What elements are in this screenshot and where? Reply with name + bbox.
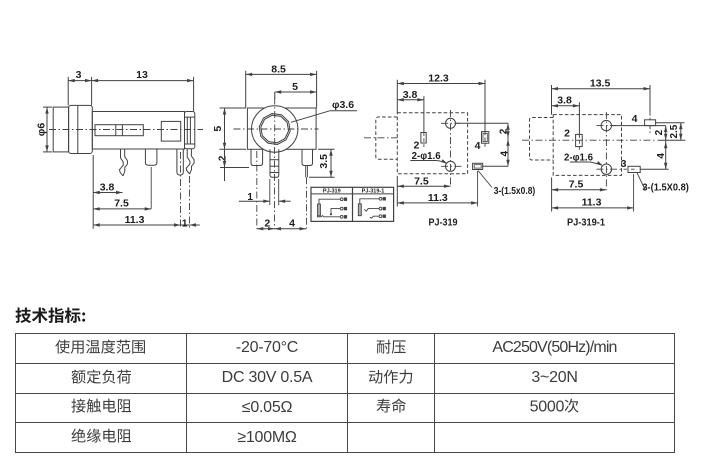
view3 dim 2 right <box>499 123 510 166</box>
view3 dim 12.3 <box>397 73 485 132</box>
view1 dim phi6 <box>35 107 52 152</box>
view4 holes centerline vertical <box>605 112 607 190</box>
view1 dim 1 <box>181 218 200 229</box>
view2 dim 2 bottom <box>257 217 275 230</box>
view1 body <box>92 112 184 150</box>
view4 pad pin4 <box>645 120 656 126</box>
view3 barrel dashed <box>376 117 398 159</box>
view3 hole bottom <box>446 161 456 171</box>
view2 label phi3.6 <box>291 99 357 122</box>
view1 pin spring left <box>123 149 127 176</box>
svg-text:4: 4 <box>499 150 510 156</box>
svg-text:3.8: 3.8 <box>403 89 418 101</box>
svg-text:3-(1.5x0.8): 3-(1.5x0.8) <box>494 186 536 197</box>
view2 pin center <box>270 149 279 177</box>
view3 pad pin4 <box>482 132 489 144</box>
svg-text:2.5: 2.5 <box>669 124 680 138</box>
view3 dim 7.5 <box>397 175 450 206</box>
schematic PJ-319-1 circuit <box>358 197 386 218</box>
schematic PJ-319 circuit <box>318 198 348 219</box>
svg-text:4: 4 <box>632 113 638 125</box>
view4 body dashed <box>553 115 621 176</box>
view1 dim 3.8 <box>93 155 122 229</box>
svg-text:7.5: 7.5 <box>414 175 429 187</box>
view4 label 3-(1.5X0.8) <box>637 173 689 194</box>
view4 dim 11.3 <box>552 174 634 212</box>
view2 dim 4 bottom <box>275 217 307 230</box>
view3 label 3-(1.5x0.8) <box>478 171 535 198</box>
view2 body <box>247 108 316 149</box>
view3 pad pin3 <box>473 163 483 169</box>
view4 centerline horizontal <box>522 139 657 141</box>
view1 inner bar <box>95 125 143 136</box>
view1 pin middle <box>145 149 157 165</box>
svg-text:2: 2 <box>413 139 419 151</box>
svg-text:13.5: 13.5 <box>590 77 611 89</box>
view1 flange <box>69 105 93 153</box>
view2 inner nut ring <box>259 114 290 145</box>
view1 inner box <box>161 121 180 141</box>
view3 centerline left <box>364 137 397 139</box>
svg-text:11.3: 11.3 <box>428 192 448 204</box>
view4 dim 4 right <box>656 140 668 169</box>
svg-text:3-(1.5X0.8): 3-(1.5X0.8) <box>642 183 689 194</box>
view4 line from top hole <box>612 125 666 127</box>
svg-text:4: 4 <box>656 153 667 159</box>
view2 pin left <box>251 149 263 165</box>
view3 line from top hole <box>456 122 509 124</box>
view1 dim 7.5 <box>93 167 151 211</box>
view1 dim 3 <box>68 69 91 105</box>
view4 hole top <box>601 120 611 130</box>
schematic box frame <box>311 187 394 221</box>
view1 end bracket <box>185 112 195 149</box>
svg-text:7.5: 7.5 <box>569 178 584 190</box>
view1 dim 11.3 <box>93 214 180 227</box>
view3 label 2-phi1.6 <box>410 151 447 164</box>
view2 dim 5 left <box>212 108 246 149</box>
view3 dim 4 right <box>499 139 510 166</box>
view4 hole bottom <box>601 164 611 174</box>
view4 pad pin2 <box>576 134 583 146</box>
svg-text:PJ-319-1: PJ-319-1 <box>567 216 605 228</box>
view1 barrel <box>53 107 68 152</box>
heading 技术指标: <box>15 307 86 333</box>
view3 holes centerline vertical <box>450 110 452 186</box>
view1 pin right round <box>177 149 183 175</box>
view1 dim 13 <box>92 69 194 111</box>
view2 dim 8.5 <box>246 64 317 108</box>
view4 pad pin3 <box>628 166 640 172</box>
view4 label 2-phi1.6 <box>564 153 603 166</box>
view3 dim 11.3 <box>397 171 477 207</box>
view4 dim 2.5 right <box>669 123 683 141</box>
view1 centerline <box>49 129 203 131</box>
svg-text:2: 2 <box>564 128 570 140</box>
svg-text:4: 4 <box>475 140 481 152</box>
view4 barrel dashed <box>530 118 554 161</box>
view2 dim 2 left <box>217 149 249 181</box>
view3 body dashed <box>397 113 467 174</box>
view2 dim 1 <box>239 179 291 205</box>
svg-text:PJ-319: PJ-319 <box>429 216 458 228</box>
view4 datum line right <box>658 139 686 141</box>
view3 hole top <box>446 118 456 128</box>
view4 dim 13.5 <box>552 77 651 114</box>
view2 dim 5 top <box>275 81 317 99</box>
svg-text:12.3: 12.3 <box>428 73 449 85</box>
view4 line from pad3 <box>640 168 668 170</box>
view2 pin right <box>302 149 313 165</box>
view2 outer circle <box>252 106 298 152</box>
view2 dim 3.5 right <box>309 149 335 177</box>
svg-text:11.3: 11.3 <box>582 196 602 208</box>
svg-text:3: 3 <box>621 158 627 170</box>
svg-text:2: 2 <box>654 129 665 135</box>
view3 line from pad3 <box>483 165 508 167</box>
specifications table <box>15 333 675 453</box>
view4 line pad4 top <box>656 122 685 124</box>
technical drawing: 3.5mm phone jack PJ-319 <box>0 0 728 295</box>
svg-text:3.8: 3.8 <box>557 95 572 107</box>
view4 dim 7.5 <box>552 177 607 211</box>
view4 dim 2 right <box>654 126 667 141</box>
view2 crosshair <box>234 128 319 130</box>
view4 dim 3.8 <box>552 95 580 150</box>
view3 dim 3.8 <box>397 89 424 147</box>
view1 pin spring right <box>190 149 194 174</box>
view3 pad pin2 <box>421 133 426 144</box>
